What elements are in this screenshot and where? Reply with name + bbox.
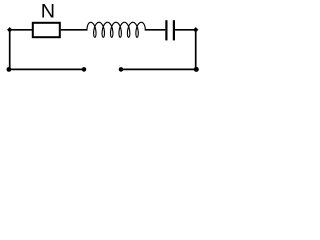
node: top-left junction diamond <box>7 27 12 32</box>
inductor L1 (coil) <box>87 22 145 37</box>
svg-text:N: N <box>41 0 55 22</box>
node: top-right junction diamond <box>193 27 198 32</box>
wire: resistor to inductor <box>61 29 88 31</box>
wire: bottom-left segment <box>10 68 84 70</box>
wire: bottom-right segment <box>121 68 196 70</box>
node: bottom-left corner dot <box>6 67 11 72</box>
wire: right vertical rail <box>195 30 197 70</box>
capacitor C1 plate right <box>173 20 175 40</box>
capacitor C1 plate left <box>165 20 167 40</box>
node: terminal dot right (port) <box>119 67 124 72</box>
wire: inductor to capacitor <box>145 29 166 31</box>
wire: top-left segment to resistor <box>10 29 33 31</box>
wire: capacitor to right rail <box>175 29 196 31</box>
node: bottom-right corner dot <box>194 67 199 72</box>
node: terminal dot left (port) <box>82 67 87 72</box>
wire: left vertical rail <box>9 30 11 70</box>
resistor N (box) <box>33 23 60 37</box>
